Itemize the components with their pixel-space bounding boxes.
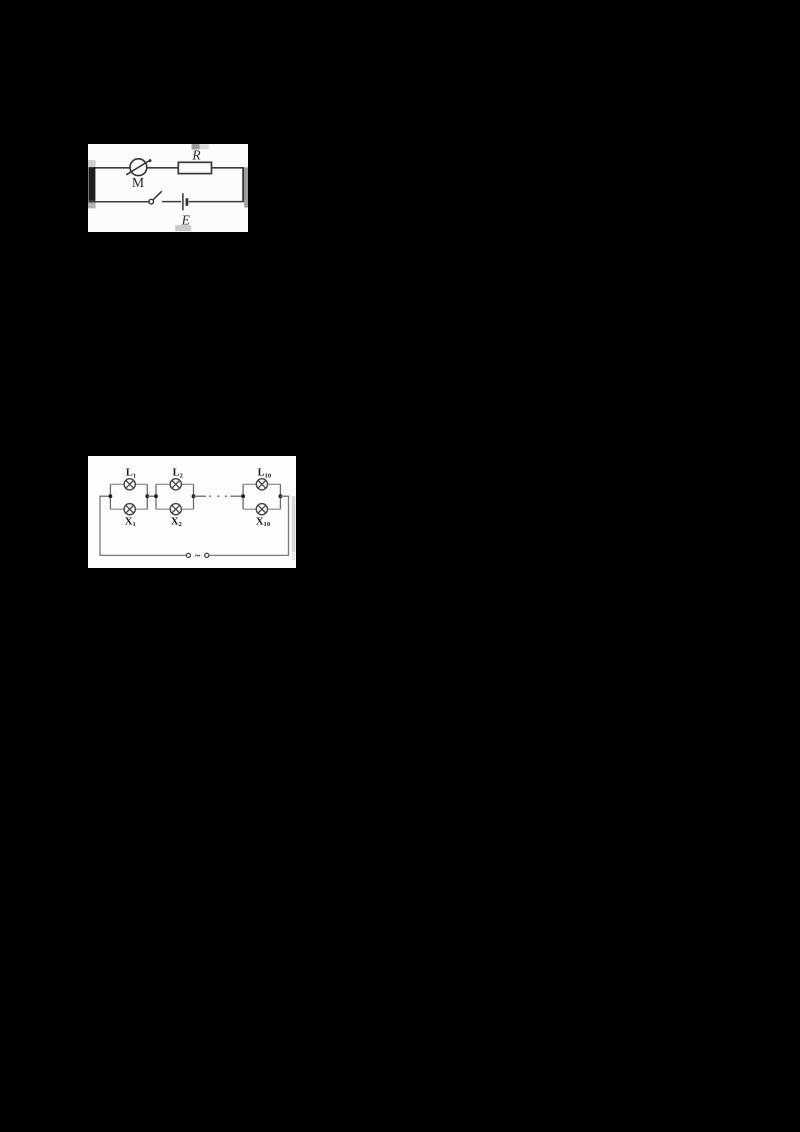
group 3 top branch wires — [243, 483, 256, 485]
group 3 left vertical — [242, 484, 244, 509]
AC source tilde — [195, 555, 200, 556]
group 1 bottom branch wires — [110, 508, 124, 510]
group 1 top branch wires — [110, 483, 124, 485]
motor M symbol (circle with diagonal needle) — [130, 159, 147, 176]
wire before group3 — [230, 495, 243, 497]
lamp L2 — [170, 479, 181, 490]
group 2 top branch wires — [156, 483, 170, 485]
group 3 right vertical — [279, 484, 281, 509]
junction dot group3 left — [241, 494, 245, 498]
lamp X10 — [256, 504, 267, 515]
artifact smudge below E — [175, 225, 191, 231]
wire right vertical — [288, 496, 290, 556]
wire after group2 — [194, 495, 207, 497]
svg-text:L2: L2 — [173, 468, 184, 480]
junction dot group1 right — [145, 494, 149, 498]
junction dot group2 right — [192, 494, 196, 498]
svg-text:M: M — [132, 175, 144, 190]
battery E (long thin plate and short thick plate) — [182, 193, 184, 210]
wire link group1-group2 — [147, 495, 156, 497]
wire top-middle segment (motor to resistor) — [147, 167, 179, 169]
artifact smudge above R — [192, 144, 200, 149]
circuit 2 panel (lamp pairs L1/X1 .. L10/X10 on AC source) — [88, 456, 296, 568]
group 2 bottom branch wires — [156, 508, 170, 510]
wire right vertical — [242, 168, 244, 202]
artifact gray band right edge — [292, 496, 296, 552]
artifact light block lower-left — [88, 200, 96, 208]
wire top-left segment — [94, 167, 131, 169]
wire bottom-left segment — [89, 201, 149, 203]
junction dot group2 left — [154, 494, 158, 498]
wire bottom-left segment — [99, 554, 186, 556]
svg-text:X2: X2 — [171, 516, 183, 528]
svg-text:L1: L1 — [126, 468, 136, 480]
resistor R — [178, 162, 211, 173]
lamp L1 — [124, 479, 135, 490]
group 2 left vertical — [155, 484, 157, 509]
wire bottom-right segment — [209, 554, 289, 556]
svg-text:X10: X10 — [256, 516, 271, 528]
wire group3 to right vertical — [280, 495, 289, 497]
junction dot group3 right — [279, 494, 283, 498]
wire left vertical — [99, 496, 101, 556]
lamp L10 — [256, 479, 267, 490]
group 3 bottom branch wires — [243, 508, 256, 510]
AC source left terminal — [186, 553, 190, 557]
artifact light block upper-left — [88, 160, 96, 167]
svg-text:X1: X1 — [125, 516, 136, 528]
group 2 right vertical — [193, 484, 195, 509]
group 1 right vertical — [146, 484, 148, 509]
svg-text:E: E — [181, 212, 191, 227]
svg-text:R: R — [191, 148, 200, 163]
lamp X2 — [170, 504, 181, 515]
wire left vertical (thick dark bar) — [88, 167, 95, 201]
switch (circle pivot and lever) — [149, 199, 154, 204]
artifact gray band right edge — [244, 167, 248, 207]
circuit 1 panel (motor M, resistor R, switch, battery E) — [88, 144, 248, 232]
wire top-right segment (resistor to right side) — [211, 167, 244, 169]
wire mid feed to group 1 — [100, 495, 110, 497]
lamp X1 — [124, 504, 135, 515]
svg-text:L10: L10 — [258, 468, 272, 480]
wire bottom-middle segment (switch to battery) — [162, 201, 181, 203]
wire bottom-right segment (battery to right side) — [189, 201, 244, 203]
ellipsis dots (continuation) — [209, 495, 211, 497]
junction dot group1 left — [109, 494, 113, 498]
group 1 left vertical — [109, 484, 111, 509]
AC source right terminal — [205, 553, 209, 557]
